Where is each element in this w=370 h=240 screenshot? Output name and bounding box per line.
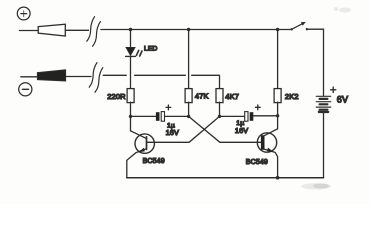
LED D1 [126,30,142,57]
wire probe1 lead-in [20,30,39,32]
minus polarity marker (circled -) [19,83,32,96]
node A (47K / C1 / Q2 base) [187,115,190,118]
node 47K/rail junction [187,28,190,31]
plus polarity marker (circled +) [17,7,30,20]
node B (4K7 / C2 / Q1 base) [218,115,221,118]
resistor R2 47K [185,30,192,117]
wire probe2 lead-in [21,76,38,78]
resistor R1 220R [127,89,134,103]
node Q1 collector junction [129,115,132,118]
capacitor C1 1u 16V [131,105,189,121]
battery BT1 6V [316,96,330,112]
battery plus label [331,87,336,92]
svg-text:16V: 16V [166,128,179,137]
transistor Q1 BC549 [127,116,155,177]
svg-text:16V: 16V [235,126,248,135]
wire cross-coupling node B to Q1 base [147,116,220,142]
switch S1 (open, arrow lever) [291,22,309,31]
resistor R4 2K2 [274,30,281,116]
svg-text:4K7: 4K7 [225,92,239,101]
node 2K2/rail junction [276,28,279,31]
node emitter/rail junction [276,176,280,180]
wire probe2 run to 4K7 (with crossover gaps) [103,75,219,88]
svg-text:6V: 6V [337,95,348,105]
probe P2 (negative test probe, filled) [37,70,65,81]
wire switch to battery top [307,29,324,96]
capacitor C2 1u 16V [220,105,278,121]
wire probe2 to break [66,76,91,78]
wire bottom rail [127,177,324,179]
transistor Q2 BC549 [257,116,277,178]
probe P1 (positive test probe, outline) [38,24,65,36]
svg-text:BC549: BC549 [246,159,268,166]
cable break symbol (bottom lead) [89,63,103,93]
scanner smudge artifact [301,183,331,189]
svg-text:BC549: BC549 [143,158,165,165]
wire 220R to collector node [130,102,132,116]
wire cross-coupling node A to Q2 base [189,116,261,142]
node LED/rail junction [129,28,132,31]
wire top supply rail [101,29,292,31]
wire probe1 to break [65,29,88,31]
resistor R3 4K7 [216,89,223,117]
svg-text:220R: 220R [107,92,126,101]
svg-text:2K2: 2K2 [285,92,299,101]
cable break symbol (top lead) [87,17,101,47]
wire LED to 220R [130,57,132,88]
node C2 / 2K2 junction [276,114,279,117]
svg-text:47K: 47K [195,92,209,101]
svg-text:LED: LED [144,46,157,53]
wire battery to bottom rail [323,113,325,178]
